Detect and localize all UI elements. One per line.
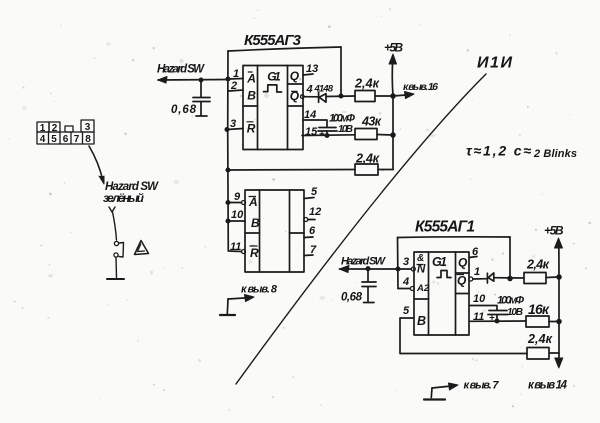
svg-text:N: N (417, 264, 426, 276)
svg-text:Q: Q (290, 69, 300, 83)
svg-text:3: 3 (85, 122, 91, 133)
svg-text:4: 4 (402, 276, 409, 288)
svg-text:6: 6 (63, 134, 69, 145)
svg-text:+5В: +5В (544, 224, 564, 238)
svg-text:11: 11 (230, 241, 241, 253)
svg-text:к выв. 8: к выв. 8 (241, 284, 278, 296)
svg-text:5: 5 (51, 134, 57, 145)
svg-text:7: 7 (310, 244, 317, 256)
svg-text:0,68: 0,68 (341, 292, 363, 304)
svg-text:B: B (417, 314, 426, 328)
svg-text:11: 11 (473, 311, 484, 323)
svg-text:15: 15 (305, 126, 318, 138)
svg-text:8: 8 (85, 134, 91, 145)
svg-text:2,4к: 2,4к (526, 258, 550, 272)
svg-text:1: 1 (40, 123, 46, 134)
svg-text:2,4к: 2,4к (527, 332, 553, 346)
svg-text:2: 2 (230, 80, 237, 92)
svg-text:G1: G1 (267, 70, 281, 84)
svg-text:К555АГ3: К555АГ3 (244, 32, 302, 49)
svg-text:1: 1 (233, 68, 239, 80)
svg-text:к выв. 7: к выв. 7 (464, 380, 500, 392)
svg-text:2,4к: 2,4к (355, 152, 380, 166)
svg-text:4: 4 (40, 134, 46, 145)
svg-text:16к: 16к (528, 301, 550, 317)
svg-text:А: А (246, 72, 256, 86)
svg-text:&: & (417, 253, 424, 264)
svg-text:1: 1 (474, 266, 480, 278)
svg-text:14: 14 (304, 109, 316, 121)
svg-text:4148: 4148 (314, 84, 334, 95)
svg-text:9: 9 (234, 191, 241, 203)
svg-text:G1: G1 (432, 255, 447, 269)
svg-text:2: 2 (52, 123, 58, 134)
svg-text:2,4к: 2,4к (354, 77, 380, 91)
svg-text:И1И: И1И (477, 55, 512, 72)
svg-text:13: 13 (306, 63, 318, 75)
svg-text:B: B (247, 89, 256, 103)
svg-text:100мФ: 100мФ (329, 113, 355, 125)
svg-text:10: 10 (473, 293, 486, 305)
svg-text:6: 6 (472, 246, 479, 258)
svg-text:12: 12 (309, 206, 321, 218)
svg-text:Q: Q (457, 274, 467, 288)
svg-text:6: 6 (309, 225, 316, 237)
svg-text:43к: 43к (361, 115, 382, 129)
svg-text:Hazard SW: Hazard SW (157, 64, 205, 76)
svg-text:к выв 14: к выв 14 (528, 380, 568, 392)
svg-text:3: 3 (230, 118, 236, 130)
svg-text:+5В: +5В (384, 41, 403, 55)
svg-text:Q: Q (458, 256, 468, 270)
svg-text:10В: 10В (507, 307, 523, 318)
svg-text:Hazard SW: Hazard SW (341, 256, 387, 268)
svg-text:к выв. 16: к выв. 16 (403, 81, 438, 93)
svg-text:B: B (251, 216, 260, 230)
svg-text:R: R (250, 246, 259, 260)
svg-text:3: 3 (403, 256, 409, 268)
svg-text:10: 10 (231, 209, 244, 221)
svg-text:К555АГ1: К555АГ1 (415, 219, 475, 236)
svg-text:зелёный: зелёный (103, 191, 145, 205)
svg-text:4: 4 (306, 83, 313, 95)
svg-text:R: R (247, 122, 256, 136)
svg-text:2 Blinks: 2 Blinks (533, 148, 577, 160)
svg-text:7: 7 (74, 134, 80, 145)
svg-text:10В: 10В (338, 124, 353, 135)
svg-text:0,68: 0,68 (171, 104, 197, 116)
svg-text:5: 5 (403, 305, 410, 317)
svg-text:5: 5 (311, 186, 318, 198)
svg-text:100мФ: 100мФ (497, 295, 524, 307)
svg-text:А2: А2 (416, 283, 430, 294)
